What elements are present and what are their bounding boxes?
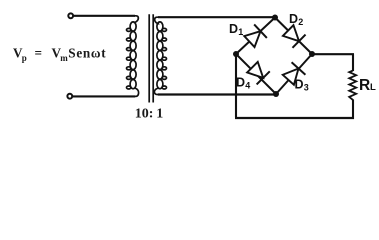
wire left node vertical down <box>235 54 237 117</box>
diode D2 (top node to right node, pointing down-right) <box>282 24 306 48</box>
node bottom junction dot <box>273 91 279 97</box>
diode D4 (left node to bottom node, pointing down-right) <box>246 61 270 85</box>
svg-text:2: 2 <box>298 17 303 27</box>
svg-text:L: L <box>370 82 376 93</box>
wire RL bottom vertical <box>352 100 354 120</box>
svg-text:3: 3 <box>304 83 309 93</box>
svg-text:Senωt: Senωt <box>68 46 106 61</box>
terminal bottom-left <box>67 94 72 99</box>
svg-text:=: = <box>35 46 43 61</box>
node left junction dot <box>233 51 239 57</box>
svg-text:1: 1 <box>238 27 243 37</box>
wire right node to RL top <box>312 53 354 55</box>
bridge diamond wires <box>236 18 275 55</box>
wire secondary top to bridge top node <box>158 16 275 18</box>
diode D3 (bottom node to right node, pointing up-right) <box>281 62 305 86</box>
transformer secondary coil <box>154 17 166 94</box>
resistor RL zigzag <box>349 71 356 101</box>
svg-text:m: m <box>60 53 68 63</box>
svg-text:D: D <box>289 12 298 26</box>
svg-text:10: 1: 10: 1 <box>135 107 163 122</box>
wire bottom rail <box>235 117 354 119</box>
wire secondary bottom to bridge bottom node <box>158 93 276 95</box>
diode D1 (left node to top node, pointing up-right) <box>243 24 267 48</box>
transformer core lines <box>148 14 150 102</box>
svg-text:D: D <box>236 76 245 90</box>
svg-text:D: D <box>295 78 304 92</box>
transformer primary coil <box>127 16 139 97</box>
svg-text:p: p <box>22 53 27 63</box>
svg-text:R: R <box>359 77 370 94</box>
label Vp = Vm Senwt <box>13 46 106 63</box>
terminal top-left <box>68 13 73 18</box>
wire RL top vertical <box>352 54 354 71</box>
node right junction dot <box>309 51 315 57</box>
wire bottom-left horizontal <box>73 95 136 97</box>
svg-text:4: 4 <box>245 81 250 91</box>
wire top-left horizontal <box>73 15 135 17</box>
node top junction dot <box>272 15 278 21</box>
svg-text:D: D <box>229 22 238 36</box>
